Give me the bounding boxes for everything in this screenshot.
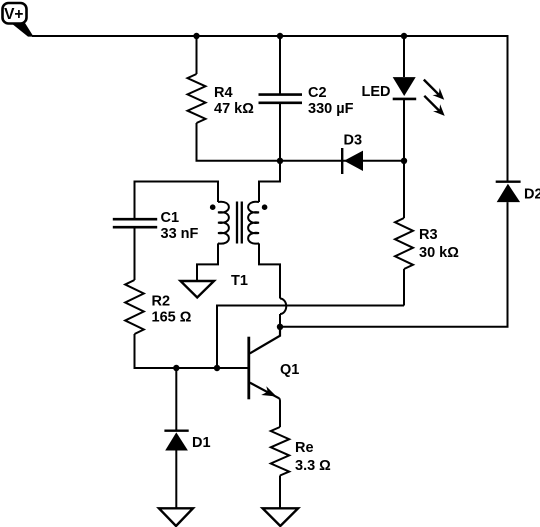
diode D3 (342, 148, 363, 174)
wire R3 top lead (403, 161, 405, 218)
diode D1 (164, 431, 188, 451)
label C1 value (161, 210, 199, 242)
svg-text:R4: R4 (214, 85, 233, 101)
transformer T1 primary winding (218, 202, 229, 244)
LED (393, 77, 417, 99)
junction top rail / LED (401, 33, 407, 39)
resistor Re (271, 427, 289, 476)
junction base rail / D1 (173, 365, 179, 371)
label R4 value (214, 85, 254, 117)
wire R4 top lead (196, 36, 198, 74)
wire D2 top lead (507, 35, 509, 182)
wire LED cathode to node (403, 99, 405, 161)
svg-text:Re: Re (295, 440, 314, 456)
svg-text:T1: T1 (231, 273, 248, 289)
T1 primary phase dot (210, 204, 216, 210)
wire primary bottom to ground (197, 243, 218, 281)
label R2 value (152, 294, 192, 326)
transformer T1 core (237, 202, 242, 244)
svg-text:165 Ω: 165 Ω (152, 310, 192, 326)
wire Re bottom lead (279, 476, 281, 509)
svg-text:D2: D2 (524, 187, 540, 203)
svg-text:R3: R3 (419, 227, 438, 243)
junction D3/LED/R3 (401, 158, 407, 164)
ground Re (263, 508, 299, 526)
wire secondary top lead (259, 161, 280, 202)
wire secondary bottom lead (259, 243, 280, 298)
wire D2 bottom lead (507, 202, 509, 327)
junction base rail / R3 branch (214, 365, 220, 371)
capacitor C1 (113, 219, 157, 227)
wire R4 bottom lead (196, 123, 198, 161)
wire LED top lead (403, 36, 405, 77)
wire D1 top lead (175, 368, 177, 431)
wire base node: R3 down-lead run to transistor base rail (217, 306, 404, 369)
wire emitter lead (278, 398, 281, 427)
junction collector node (277, 324, 283, 330)
wire C1 top lead and left loop top (135, 182, 219, 220)
svg-text:D1: D1 (192, 435, 211, 451)
diode D2 (496, 182, 521, 202)
label C2 value (308, 85, 354, 117)
svg-text:LED: LED (362, 84, 391, 100)
svg-text:30 kΩ: 30 kΩ (419, 245, 459, 261)
svg-text:R2: R2 (152, 294, 171, 310)
wire top rail V+ to D2 (32, 35, 508, 37)
wire C2 bottom lead (279, 103, 281, 161)
wire node R4/C2/D3/LED horizontal (196, 160, 405, 162)
resistor R3 (395, 218, 413, 269)
svg-text:V+: V+ (4, 6, 23, 23)
svg-text:47 kΩ: 47 kΩ (214, 101, 254, 117)
ground D1 (159, 508, 193, 526)
svg-text:330 µF: 330 µF (308, 101, 354, 117)
ground primary (181, 281, 215, 298)
wire C2 top lead (279, 36, 281, 95)
wire R2 bottom lead (134, 334, 136, 368)
junction C2 / T1 secondary (277, 158, 283, 164)
power flag V+ (3, 3, 34, 37)
wire hop to collector junction (279, 314, 281, 327)
wire D1 bottom lead (175, 451, 177, 509)
wire R3 bottom lead (403, 269, 405, 306)
T1 secondary phase dot (262, 204, 268, 210)
label R3 value (419, 227, 459, 261)
transistor Q1 (249, 327, 280, 400)
svg-text:C2: C2 (308, 85, 327, 101)
wire hop over base node wire (280, 299, 286, 315)
wire base rail (134, 367, 249, 369)
LED light arrows (424, 80, 445, 116)
svg-text:33 nF: 33 nF (161, 226, 199, 242)
svg-text:C1: C1 (161, 210, 180, 226)
resistor R4 (188, 74, 206, 123)
resistor R2 (125, 280, 144, 334)
junction top rail / C2 (277, 33, 283, 39)
wire collector node to D2 (280, 326, 509, 328)
svg-text:D3: D3 (344, 133, 363, 149)
transformer T1 secondary winding (248, 202, 259, 244)
svg-text:3.3 Ω: 3.3 Ω (295, 458, 331, 474)
junction top rail / R4 (193, 33, 199, 39)
label Re value (295, 440, 331, 474)
capacitor C2 (259, 95, 303, 103)
svg-text:Q1: Q1 (280, 362, 299, 378)
wire C1 to R2 (134, 227, 136, 280)
